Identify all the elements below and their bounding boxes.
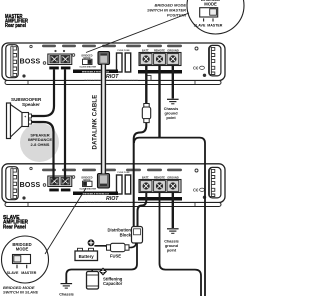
svg-text:FUSE FUSE: FUSE FUSE	[117, 172, 130, 174]
main fuse F2	[107, 243, 130, 258]
wire: fuse to distribution block (long left drop)	[134, 123, 147, 227]
svg-text:2-8 OHMS: 2-8 OHMS	[31, 142, 50, 147]
master datalink port J1	[98, 52, 110, 65]
svg-text:Chassis: Chassis	[59, 293, 74, 296]
SLAVE AMPLIFIER title	[3, 215, 28, 230]
wire: master GROUND down	[172, 66, 174, 99]
MASTER AMPLIFIER title	[5, 14, 28, 29]
Stiffening Capacitor label	[103, 276, 123, 286]
master bridged mode switch SW1	[79, 54, 96, 68]
svg-text:C€: C€	[193, 188, 199, 193]
Distribution Block label	[108, 228, 132, 238]
svg-text:FUSE: FUSE	[110, 254, 121, 259]
bridged mode callout circle (slave)	[2, 236, 49, 283]
svg-text:RIOT: RIOT	[106, 196, 119, 202]
bridged mode note (slave, italic)	[3, 285, 38, 296]
wire: battery plus to fuse	[94, 246, 106, 247]
slave panel screws	[22, 167, 206, 199]
slave power terminal block	[139, 180, 181, 193]
callout line to master switch	[86, 13, 189, 53]
svg-text:Speaker: Speaker	[22, 102, 40, 107]
slave vent slots row	[42, 169, 182, 172]
bridged mode note (master, italic)	[147, 2, 186, 17]
callout line to slave switch	[45, 188, 86, 254]
master right heatsink	[209, 45, 221, 76]
master panel screws	[22, 45, 206, 77]
svg-text:point: point	[167, 248, 177, 252]
master amplifier U1 rear panel body	[2, 43, 225, 85]
svg-text:BOSS: BOSS	[20, 58, 41, 65]
svg-text:MASTER: MASTER	[207, 23, 223, 27]
wire: subwoofer - down to slave speaker terminal	[32, 122, 54, 181]
master cable clamp	[146, 76, 151, 81]
wire: fuse to distribution block bottom	[129, 243, 136, 248]
wire: master REMOTE down	[158, 66, 160, 138]
master power label bar	[138, 70, 182, 74]
wire: remote run right and down page	[134, 138, 205, 296]
subwoofer speaker LS1	[7, 103, 32, 139]
svg-text:DATALINK CABLE: DATALINK CABLE	[93, 95, 99, 150]
slave power terminal labels	[142, 176, 179, 180]
svg-text:Battery: Battery	[79, 254, 95, 259]
wire: master BATT+ down to inline fuse	[145, 66, 147, 105]
master power terminal block	[139, 53, 181, 66]
master label bar	[73, 70, 118, 74]
SUBWOOFER label	[11, 97, 42, 107]
svg-text:MODE: MODE	[204, 2, 217, 7]
wire: slave GROUND down	[172, 193, 174, 229]
svg-text:RIOT: RIOT	[106, 74, 119, 80]
wire: slave REMOTE down and right to page bottom	[160, 193, 202, 296]
svg-text:CLASS D MONOBLOCK POWER AMPLIF: CLASS D MONOBLOCK POWER AMPLIFIER DESIGN	[84, 201, 139, 204]
svg-text:+: +	[24, 115, 26, 119]
svg-text:CLASS D MONOBLOCK POWER AMPLIF: CLASS D MONOBLOCK POWER AMPLIFIER DESIGN	[84, 79, 139, 82]
master CE mark	[193, 66, 204, 71]
slave left heatsink	[6, 167, 18, 200]
wire: distribution block to ground bus	[66, 243, 137, 283]
svg-text:point: point	[166, 116, 176, 120]
svg-text:ground: ground	[164, 111, 178, 115]
slave amplifier U2 rear panel body	[2, 164, 225, 207]
svg-text:C€: C€	[193, 66, 199, 71]
master chassis ground symbol	[164, 99, 179, 120]
svg-text:MASTER: MASTER	[87, 187, 97, 190]
slave fuse windows	[117, 172, 131, 194]
distribution block DB1	[132, 227, 143, 244]
stiffening capacitor C1	[87, 270, 99, 290]
speaker impedance note circle	[20, 123, 59, 162]
slave chassis ground symbol	[164, 229, 179, 253]
svg-text:BOSS: BOSS	[20, 182, 41, 189]
master fuse windows	[117, 50, 131, 72]
svg-text:SLAVE: SLAVE	[7, 271, 19, 275]
slave CE mark	[193, 188, 204, 193]
svg-text:FUSE FUSE: FUSE FUSE	[117, 50, 130, 52]
slave power label bar	[138, 197, 182, 201]
battery BT1	[75, 248, 98, 260]
inline fuse F1	[142, 104, 150, 123]
wire: master-to-slave speaker link	[64, 69, 66, 180]
svg-text:Rear Panel: Rear Panel	[3, 224, 26, 230]
master speaker output terminal block	[48, 50, 72, 70]
capacitor plus symbol	[99, 268, 107, 276]
battery plus symbol	[88, 239, 95, 246]
slave speaker input terminal block	[48, 176, 72, 191]
slave bridged mode switch SW2	[79, 176, 96, 190]
slave right heatsink	[209, 167, 221, 198]
svg-text:SLAVE: SLAVE	[194, 23, 206, 27]
bridged mode callout circle (master)	[187, 0, 244, 34]
svg-text:ground: ground	[165, 244, 179, 248]
datalink cable	[101, 65, 106, 175]
wire: slave BATT to distribution block	[138, 193, 147, 228]
svg-text:Rear panel: Rear panel	[5, 23, 26, 29]
battery chassis ground symbol	[59, 284, 74, 296]
slave datalink port J2	[98, 174, 110, 189]
svg-text:MASTER: MASTER	[87, 65, 97, 68]
wire: master speaker + to subwoofer	[32, 69, 55, 116]
svg-text:Chassis: Chassis	[164, 239, 179, 243]
svg-text:MODE: MODE	[16, 247, 29, 252]
master left heatsink	[6, 45, 18, 78]
master power terminal labels	[142, 49, 179, 53]
svg-text:Chassis: Chassis	[164, 107, 179, 111]
master vent slots row	[42, 45, 182, 48]
svg-text:Capacitor: Capacitor	[103, 281, 123, 286]
slave label bar	[73, 192, 118, 196]
svg-text:Block: Block	[120, 232, 132, 237]
svg-text:MASTER: MASTER	[21, 271, 37, 275]
